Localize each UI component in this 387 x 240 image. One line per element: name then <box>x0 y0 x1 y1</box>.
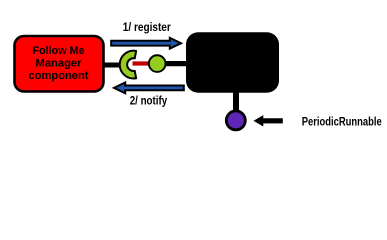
arrow: PeriodicRunnable pointer (black, left) <box>254 116 283 126</box>
svg-text:PeriodicRunnable: PeriodicRunnable <box>302 115 382 129</box>
arrow: 1/ register (blue, right) <box>111 38 181 49</box>
svg-text:component: component <box>29 70 89 82</box>
svg-text:Follow Me: Follow Me <box>33 45 85 57</box>
stem: box to runnable node <box>233 91 239 112</box>
node: PeriodicRunnable circle <box>226 111 245 130</box>
wire: manager box to socket <box>103 63 124 68</box>
svg-text:Manager: Manager <box>36 58 83 70</box>
red link segment <box>133 61 150 65</box>
svg-text:1/ register: 1/ register <box>123 20 171 34</box>
component box: Follow Me Manager <box>15 36 104 92</box>
svg-text:2/ notify: 2/ notify <box>130 94 168 108</box>
arrow: 2/ notify (blue, left) <box>114 83 184 94</box>
black component box <box>186 32 279 92</box>
wire: ball to black box <box>165 61 188 66</box>
interface ball <box>149 55 166 72</box>
interface socket (crescent) <box>120 51 136 79</box>
